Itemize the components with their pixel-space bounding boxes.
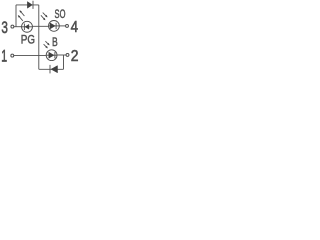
svg-text:B: B xyxy=(52,37,58,50)
wire right drop from B output node xyxy=(63,55,65,69)
photodiode B internal diode (pointing right) xyxy=(46,52,57,58)
pin 2 terminal xyxy=(66,53,69,56)
protection diode (anti-parallel with PG) xyxy=(27,1,33,9)
SO incident arrow upper xyxy=(43,13,48,18)
svg-text:1: 1 xyxy=(1,47,7,65)
bottom diode (anti-parallel with B, pointing left) xyxy=(50,65,58,74)
wire pin 1 common rail xyxy=(14,54,47,56)
B incident arrow lower xyxy=(44,44,48,48)
svg-text:2: 2 xyxy=(71,48,79,65)
wire left riser to protection diode xyxy=(15,5,17,27)
pin 3 terminal xyxy=(11,25,14,28)
svg-text:PG: PG xyxy=(21,34,35,47)
SO incident arrow lower xyxy=(41,15,46,20)
photodiode SO circle xyxy=(49,21,60,32)
svg-text:3: 3 xyxy=(1,19,8,37)
LED PG circle xyxy=(22,21,33,32)
wire SO to pin 4 xyxy=(59,25,65,27)
pin 1 terminal xyxy=(11,54,14,57)
photodiode B circle xyxy=(46,50,57,61)
pin 4 terminal xyxy=(66,24,69,27)
PG emission arrow lower xyxy=(18,15,23,21)
wire pin3 to LED PG anode node xyxy=(14,26,22,28)
wire PG to SO node xyxy=(32,25,48,27)
wire top diode branch xyxy=(16,4,39,6)
LED PG internal diode (pointing left) xyxy=(22,24,32,30)
wire bottom return branch xyxy=(39,68,64,70)
photodiode SO internal diode (pointing right) xyxy=(49,23,60,29)
svg-text:4: 4 xyxy=(71,19,78,36)
wire right riser (top diode to common vertical) xyxy=(38,5,40,69)
PG emission arrow upper xyxy=(19,10,24,16)
wire B to pin 2 xyxy=(57,54,66,56)
svg-text:SO: SO xyxy=(55,8,66,21)
B incident arrow upper xyxy=(45,41,49,45)
